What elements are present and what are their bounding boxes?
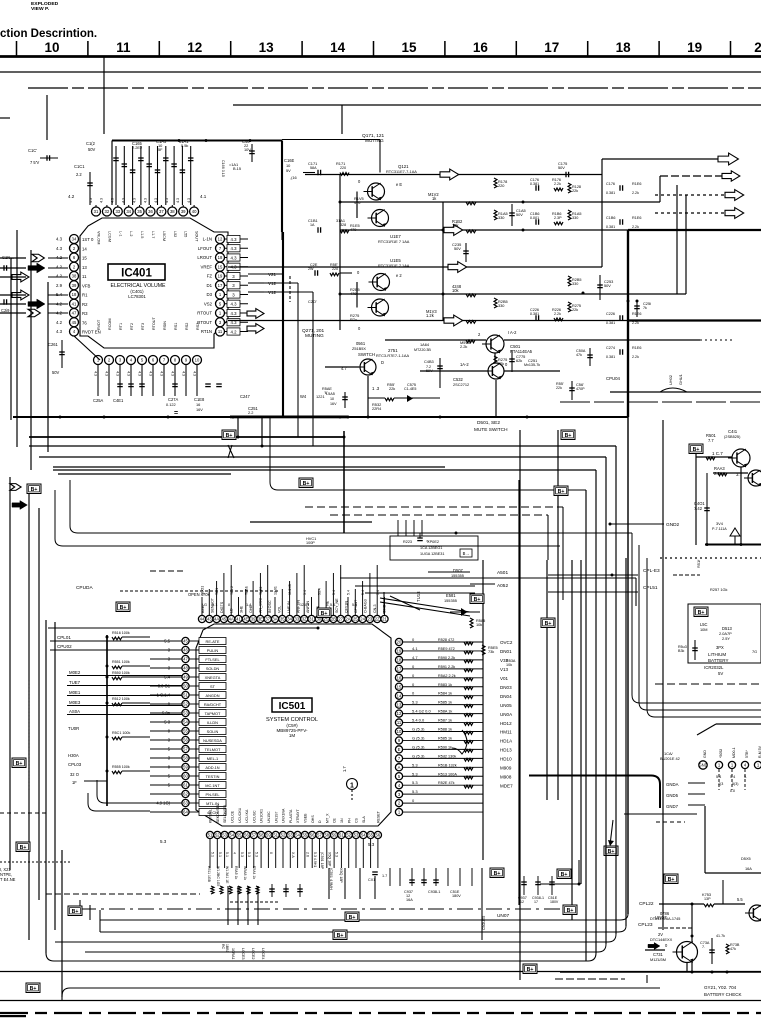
svg-text:0.381: 0.381	[606, 191, 615, 195]
diag mark	[228, 445, 234, 458]
svg-text:M0E3: M0E3	[69, 700, 81, 705]
wire top frame 1	[0, 71, 761, 73]
boxlabel bottomright2	[563, 905, 577, 915]
svg-text:GHU1: GHU1	[678, 374, 683, 385]
svg-text:R585 1k: R585 1k	[438, 736, 452, 740]
svg-text:ICR2032L: ICR2032L	[704, 665, 724, 670]
svg-text:ction Descrintion.: ction Descrintion.	[0, 28, 97, 40]
IC401 top pins	[92, 207, 101, 216]
svg-text:7G: 7G	[752, 649, 757, 654]
svg-text:C247: C247	[240, 394, 251, 399]
bottom thick wire y972 right	[560, 971, 761, 973]
V2x wires	[242, 275, 266, 277]
right vertical x660	[659, 176, 661, 202]
svg-text:4.3: 4.3	[231, 237, 238, 242]
svg-text:2.9: 2.9	[56, 283, 63, 288]
svg-text:0: 0	[269, 852, 273, 854]
svg-text:53: 53	[183, 711, 188, 716]
svg-text:B+: B+	[303, 481, 310, 487]
svg-text:2.2k: 2.2k	[460, 344, 467, 349]
cap C1C7 left	[40, 157, 58, 159]
cap C253	[465, 243, 467, 262]
left circuit verticals	[45, 620, 47, 953]
svg-text:10k: 10k	[476, 622, 482, 627]
svg-text:RTOUT: RTOUT	[197, 311, 212, 316]
svg-text:B+: B+	[31, 487, 38, 493]
svg-text:CE: CE	[333, 817, 337, 823]
svg-text:L55: L55	[184, 231, 188, 237]
svg-text:17: 17	[544, 40, 559, 55]
resistor R178	[494, 178, 497, 188]
svg-text:50V: 50V	[52, 370, 60, 375]
svg-text:18: 18	[397, 658, 402, 663]
svg-text:0.001: 0.001	[530, 216, 539, 220]
svg-text:R588 1k: R588 1k	[438, 728, 452, 732]
svg-text:5.5: 5.5	[737, 897, 743, 902]
svg-text:57: 57	[183, 747, 188, 752]
boxlabel near bundle	[470, 594, 484, 604]
svg-text:5(3): 5(3)	[732, 782, 739, 786]
nested corner bottom right of IC501	[170, 845, 405, 888]
tick x647	[646, 975, 648, 983]
vertical from right pins x283	[282, 232, 284, 417]
wire y390 right	[610, 391, 761, 393]
svg-text:330: 330	[498, 215, 504, 220]
svg-text:2A: 2A	[345, 617, 350, 622]
svg-text:47: 47	[183, 657, 188, 662]
cap C168	[303, 172, 315, 174]
thick wire y776	[529, 776, 660, 809]
svg-text:2Z: 2Z	[375, 617, 380, 622]
svg-text:BU201E 42: BU201E 42	[660, 756, 680, 761]
svg-text:4.1: 4.1	[412, 646, 418, 651]
svg-text:FZ: FZ	[207, 274, 213, 279]
cap C2E right of chip	[314, 270, 316, 276]
svg-text:11: 11	[82, 274, 87, 279]
arrow solid in L5	[28, 299, 45, 309]
svg-text:4.3: 4.3	[193, 371, 197, 376]
wire row 6	[228, 320, 628, 322]
svg-text:TL.1: TL.1	[215, 588, 219, 595]
svg-text:17: 17	[218, 283, 223, 288]
svg-text:16: 16	[397, 675, 402, 680]
svg-text:4.3: 4.3	[111, 198, 115, 203]
svg-text:GND2: GND2	[666, 522, 680, 528]
bottom wire y971	[0, 971, 761, 973]
svg-text:19: 19	[397, 649, 402, 654]
boxlabel bottom mid	[333, 930, 347, 940]
svg-text:RTC31R1E 7 1AA: RTC31R1E 7 1AA	[378, 239, 410, 244]
svg-text:4.3: 4.3	[116, 371, 120, 376]
svg-text:32: 32	[105, 209, 110, 214]
svg-text:4.3: 4.3	[231, 302, 238, 307]
left lower verticals	[9, 477, 11, 870]
svg-text:13P: 13P	[704, 897, 711, 901]
svg-text:UCUCKU: UCUCKU	[238, 807, 242, 823]
svg-text:5.3: 5.3	[412, 771, 418, 776]
svg-text:16V: 16V	[196, 407, 203, 412]
svg-text:A: A	[398, 765, 401, 770]
svg-text:39: 39	[251, 617, 256, 622]
wire mid h y533	[70, 480, 632, 533]
svg-text:R5d2 130k: R5d2 130k	[438, 754, 456, 758]
svg-text:CPL23: CPL23	[638, 922, 653, 928]
GND7 wire	[688, 804, 705, 806]
bottom wire y952	[85, 944, 606, 952]
svg-text:C25A: C25A	[93, 398, 104, 403]
svg-text:I A-2: I A-2	[508, 330, 517, 335]
svg-text:1CRA1: 1CRA1	[231, 948, 235, 959]
svg-text:10: 10	[195, 358, 200, 363]
row1 res R171	[340, 173, 349, 176]
transistor Q171	[368, 183, 385, 200]
svg-text:35: 35	[280, 617, 285, 622]
svg-text:R513 100A: R513 100A	[438, 772, 457, 776]
svg-text:PN-SEL: PN-SEL	[206, 792, 221, 797]
svg-text:4.3: 4.3	[94, 371, 98, 376]
svg-text:7 5'V: 7 5'V	[30, 160, 39, 165]
IC401 left pins	[70, 235, 79, 244]
wire row 3	[340, 229, 628, 231]
wire mid h5	[58, 473, 231, 475]
svg-text:155355: 155355	[444, 598, 457, 603]
svg-text:D3: D3	[206, 292, 212, 297]
svg-text:23: 23	[368, 617, 373, 622]
svg-text:40: 40	[192, 209, 197, 214]
svg-text:CPU02: CPU02	[57, 644, 72, 649]
battery cap	[694, 640, 696, 660]
svg-text:R1E6: R1E6	[632, 182, 641, 186]
bus vertical x520	[519, 430, 521, 980]
transistor Q5E1 switch	[360, 359, 376, 375]
svg-text:RTA114EA5: RTA114EA5	[510, 349, 533, 354]
svg-text:=: =	[174, 410, 178, 417]
svg-text:X5Q 18P: X5Q 18P	[327, 852, 331, 867]
svg-text:MTZJ0.3B: MTZJ0.3B	[414, 348, 431, 352]
svg-text:TUE7: TUE7	[69, 680, 81, 685]
svg-text:3Z: 3Z	[302, 617, 307, 622]
svg-text:B→: B→	[463, 551, 470, 556]
svg-text:CX1: CX1	[368, 878, 375, 882]
svg-text:57: 57	[251, 833, 256, 838]
svg-text:UNX1NA: UNX1NA	[282, 808, 286, 823]
svg-text:SEKOUSEL: SEKOUSEL	[216, 804, 220, 823]
svg-text:B+: B+	[558, 489, 565, 495]
svg-text:45: 45	[222, 617, 227, 622]
svg-text:14: 14	[330, 40, 346, 55]
wire left vertical B	[16, 230, 18, 447]
svg-text:4.3: 4.3	[231, 246, 238, 251]
svg-text:HM11: HM11	[500, 730, 512, 735]
svg-text:37: 37	[159, 209, 164, 214]
svg-text:L52: L52	[173, 231, 177, 237]
boxlabel scatter2	[317, 608, 331, 618]
svg-text:SOUT: SOUT	[195, 231, 199, 242]
svg-text:UCLCE: UCLCE	[231, 810, 235, 823]
svg-text:LCCE3: LCCE3	[241, 948, 245, 959]
cap C50A right	[589, 348, 591, 366]
svg-text:C1N ..: C1N ..	[2, 255, 14, 260]
bottom dashed border	[0, 1012, 761, 1014]
svg-text:44: 44	[200, 617, 205, 622]
svg-text:1A: 1A	[310, 223, 315, 227]
wire left vertical D	[47, 282, 49, 452]
XP0E2 box	[390, 536, 478, 560]
svg-text:27: 27	[338, 617, 343, 622]
svg-text:34: 34	[126, 209, 131, 214]
svg-text:IN OSC: IN OSC	[268, 600, 272, 613]
svg-text:RT3: RT3	[141, 323, 145, 330]
svg-text:R1: R1	[82, 293, 88, 298]
svg-text:5V: 5V	[718, 671, 723, 676]
svg-text:ILLDN: ILLDN	[207, 720, 218, 725]
svg-text:R528 472: R528 472	[438, 638, 454, 642]
UN07 wire	[230, 901, 280, 903]
svg-text:1.7: 1.7	[342, 766, 347, 772]
svg-text:54: 54	[361, 833, 366, 838]
svg-text:34: 34	[72, 237, 77, 242]
wire top left stub	[0, 117, 10, 119]
svg-text:1.7: 1.7	[382, 874, 387, 878]
brace right	[452, 730, 467, 754]
svg-text:C1C': C1C'	[28, 148, 37, 153]
svg-text:4.2: 4.2	[68, 194, 75, 199]
svg-text:W4: W4	[300, 394, 307, 399]
svg-text:RA/DCHT: RA/DCHT	[204, 702, 222, 707]
svg-text:M908: M908	[500, 774, 512, 779]
IC401 bottom pins	[94, 356, 103, 365]
svg-text:5.3 4.9H1: 5.3 4.9H1	[313, 852, 317, 867]
svg-text:PH: PH	[347, 818, 351, 823]
svg-text:(C501 4.9MH: (C501 4.9MH	[329, 868, 333, 890]
svg-text:39: 39	[72, 283, 77, 288]
svg-text:1.4: 1.4	[246, 602, 252, 607]
svg-text:A501: A501	[497, 570, 508, 576]
svg-text:AS0A: AS0A	[69, 709, 80, 714]
svg-text:XTRAYT: XTRAYT	[296, 808, 300, 823]
svg-text:LNE1N: LNE1N	[287, 601, 291, 613]
svg-text:58: 58	[324, 833, 329, 838]
svg-text:22k: 22k	[556, 386, 562, 390]
svg-text:OVC2: OVC2	[500, 640, 513, 645]
svg-text:R5C1 100k: R5C1 100k	[112, 731, 130, 735]
transistor Q4A2	[748, 470, 761, 486]
svg-text:GNDA: GNDA	[666, 782, 679, 787]
cap C261 left of chip	[61, 340, 63, 368]
svg-text:12: 12	[218, 237, 223, 242]
connector pins	[699, 761, 707, 769]
svg-text:R555 100k: R555 100k	[112, 765, 130, 769]
svg-text:R585 1k: R585 1k	[438, 701, 452, 705]
svg-text:0786: 0786	[660, 911, 670, 916]
svg-text:1M: 1M	[289, 733, 296, 738]
svg-text:TESTIN: TESTIN	[206, 774, 220, 779]
wire mid vertical x262	[261, 418, 263, 446]
svg-text:SWITCH: SWITCH	[358, 352, 375, 357]
bend right x647	[647, 558, 761, 717]
svg-text:5.3: 5.3	[335, 852, 339, 857]
corner wire E y507 dashed	[305, 506, 563, 508]
svg-text:B+: B+	[16, 761, 23, 767]
svg-text:180V: 180V	[550, 900, 559, 904]
svg-text:V01: V01	[500, 676, 509, 681]
mute area junction dots	[339, 416, 342, 419]
svg-text:RS1: RS1	[174, 323, 178, 330]
svg-text:C166 3.15: C166 3.15	[221, 160, 225, 177]
svg-text:22R4: 22R4	[372, 406, 382, 411]
svg-text:33: 33	[115, 209, 120, 214]
svg-text:DN04: DN04	[500, 694, 512, 699]
mid bundle dots	[343, 436, 346, 439]
svg-text:R587 1k: R587 1k	[438, 719, 452, 723]
svg-text:2.2k: 2.2k	[554, 312, 561, 316]
IC401 right pin wires	[224, 238, 248, 240]
bottom wire y942	[55, 934, 616, 942]
svg-text:4.3: 4.3	[176, 198, 180, 203]
svg-text:3PX: 3PX	[716, 645, 724, 650]
svg-text:UN15C: UN15C	[267, 811, 271, 823]
svg-text:VOL: VOL	[278, 606, 282, 613]
svg-text:L1.5: L1.5	[140, 231, 144, 238]
resistor R1A5	[494, 210, 497, 220]
svg-text:16: 16	[473, 40, 489, 55]
svg-text:CPL03: CPL03	[68, 762, 82, 767]
svg-text:5V: 5V	[286, 168, 291, 173]
wire mid h y546	[55, 490, 560, 546]
svg-text:CPL51: CPL51	[643, 585, 658, 591]
bottom left corner verticals	[79, 900, 81, 909]
svg-text:CS: CS	[355, 817, 359, 823]
block arrow row1	[440, 169, 459, 180]
wire mid h y522	[250, 521, 372, 523]
boxlabel left mid	[27, 484, 41, 494]
svg-text:RT1: RT1	[119, 323, 123, 330]
vertical x723	[722, 880, 724, 904]
left corner bends	[88, 793, 150, 811]
Q731 emitter wire	[686, 962, 688, 972]
svg-text:G (5.3): G (5.3)	[412, 727, 425, 732]
svg-text:TLE&: TLE&	[244, 585, 248, 595]
svg-text:R58A 1k: R58A 1k	[438, 710, 452, 714]
svg-text:5.5k: 5.5k	[181, 143, 188, 148]
svg-text:4E: 4E	[243, 617, 248, 622]
ground bus wire	[13, 416, 628, 418]
svg-text:54: 54	[295, 833, 300, 838]
svg-text:46: 46	[183, 648, 188, 653]
circle marker 1	[347, 779, 358, 790]
svg-text:470P: 470P	[576, 387, 585, 391]
arrow out wire R2	[660, 175, 722, 177]
ruler ticks	[16, 41, 18, 56]
svg-text:13: 13	[259, 40, 275, 55]
svg-text:UH02: UH02	[668, 375, 673, 385]
cap C1C1 left	[89, 172, 91, 205]
svg-text:2.2k: 2.2k	[632, 191, 639, 195]
dash y684 right	[655, 683, 761, 685]
bottom component stubs	[389, 868, 391, 886]
svg-text:Z51B5X: Z51B5X	[352, 346, 366, 351]
resistor R275b	[494, 356, 497, 366]
svg-text:R5A5 1k: R5A5 1k	[234, 866, 238, 880]
wire y884	[540, 883, 579, 885]
svg-text:5.1: 5.1	[211, 852, 215, 857]
svg-text:4A: 4A	[229, 617, 234, 622]
svg-text:62: 62	[183, 792, 188, 797]
row caps mid group	[619, 185, 621, 191]
svg-text:1.2k: 1.2k	[426, 313, 435, 318]
svg-text:330: 330	[498, 303, 504, 308]
svg-text:61: 61	[183, 783, 188, 788]
vertical x104 from ruler	[103, 57, 105, 134]
cap C1A5	[511, 204, 513, 226]
svg-text:B+: B+	[349, 915, 356, 921]
left resistor taps	[112, 637, 122, 640]
connector pin stubs	[718, 769, 720, 790]
svg-text:11: 11	[116, 40, 131, 55]
svg-text:MC.1NT: MC.1NT	[205, 783, 220, 788]
svg-text:R1E6: R1E6	[632, 346, 641, 350]
corner wire C y470	[53, 469, 596, 471]
bottom wire y988	[62, 988, 660, 1000]
svg-text:W5A8 1k: W5A8 1k	[243, 866, 247, 880]
svg-text:RCOM: RCOM	[108, 318, 112, 330]
svg-text:4.3: 4.3	[231, 311, 238, 316]
svg-text:C226: C226	[606, 312, 615, 316]
vertical wires LCCE	[220, 886, 228, 961]
svg-text:SOLIN: SOLIN	[207, 729, 219, 734]
svg-text:54: 54	[183, 720, 188, 725]
svg-text:5.3: 5.3	[412, 780, 418, 785]
svg-text:RESET: RESET	[377, 810, 381, 823]
svg-text:2.6: 2.6	[306, 852, 310, 857]
svg-text:T E4.NE: T E4.NE	[0, 877, 16, 882]
svg-text:4.3: 4.3	[138, 371, 142, 376]
svg-text:G: G	[204, 602, 207, 607]
transistor Q501	[486, 335, 504, 353]
svg-text:24: 24	[360, 617, 365, 622]
svg-text:DTA144E6A-1745: DTA144E6A-1745	[650, 917, 680, 921]
svg-text:18: 18	[616, 40, 632, 55]
svg-text:45: 45	[183, 639, 188, 644]
svg-text:G (5.3): G (5.3)	[412, 735, 425, 740]
svg-text:L-2: L-2	[129, 231, 133, 236]
svg-text:0.381: 0.381	[530, 312, 539, 316]
svg-text:328: 328	[340, 223, 346, 227]
svg-text:LITHIUM: LITHIUM	[708, 652, 726, 657]
svg-text:SELONSEL: SELONSEL	[223, 804, 227, 823]
IC501 right pin rows	[403, 641, 483, 643]
row3 res R1B1	[340, 230, 349, 233]
svg-text:2.2k: 2.2k	[554, 182, 561, 186]
bus vertical x581	[580, 560, 582, 884]
svg-text:CPL-E3: CPL-E3	[643, 568, 660, 574]
cap C1B6 col2	[535, 185, 537, 191]
svg-text:15: 15	[401, 40, 417, 55]
svg-text:48: 48	[183, 666, 188, 671]
svg-text:51.4: 51.4	[317, 588, 321, 595]
svg-text:G (5.3): G (5.3)	[412, 744, 425, 749]
svg-text:3A: 3A	[272, 617, 277, 622]
svg-text:5.3: 5.3	[412, 789, 418, 794]
svg-text:50: 50	[183, 684, 188, 689]
IC501 label box	[272, 698, 312, 712]
svg-text:CPUDA: CPUDA	[76, 585, 93, 591]
wire into top pins y593	[365, 592, 475, 594]
svg-text:51: 51	[339, 833, 344, 838]
svg-text:3E: 3E	[258, 617, 263, 622]
svg-text:LCCE2: LCCE2	[251, 948, 255, 959]
svg-text:MD0-1: MD0-1	[732, 747, 736, 758]
